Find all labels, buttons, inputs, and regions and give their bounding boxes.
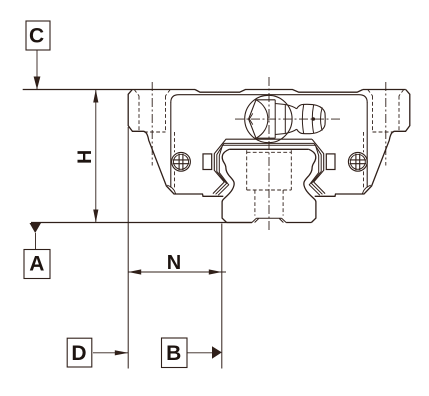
- seal claw right: [362, 185, 370, 194]
- end cap side edge left: [170, 102, 172, 187]
- datum line A (rail bottom reference): [31, 222, 252, 224]
- leader A: [35, 233, 37, 250]
- hidden edge dashed right: [363, 132, 365, 188]
- H arrow up: [93, 90, 98, 103]
- hex vertex chamfer: [249, 113, 252, 124]
- label box A: [24, 250, 50, 279]
- hidden edge dashed left: [174, 132, 176, 188]
- label box C: [26, 21, 50, 50]
- leader D: [93, 352, 128, 354]
- retainer band middle line: [216, 143, 323, 194]
- datum triangle B: [212, 346, 222, 358]
- datum triangle A: [30, 223, 42, 233]
- grease nipple recess circle: [245, 95, 292, 142]
- nipple axis centerline: [235, 118, 341, 120]
- rail counterbore hidden: [247, 150, 292, 215]
- end cap side edge right: [366, 102, 368, 187]
- retainer band outer line: [213, 139, 325, 193]
- head ring arc 1: [302, 104, 303, 133]
- mounting hole right (hidden): [368, 90, 404, 133]
- dimension N line: [128, 271, 226, 273]
- N arrow left: [128, 269, 141, 274]
- rail top surface: [229, 148, 309, 150]
- datum line C (top surface reference line): [23, 89, 195, 91]
- main vertical centerline: [268, 77, 270, 231]
- extension line D (block side face): [127, 127, 129, 369]
- cross screw left: [172, 152, 191, 171]
- head ring arc 2: [312, 105, 313, 133]
- hole centerline right: [385, 82, 387, 166]
- end cap top edge left: [171, 95, 367, 103]
- grease nipple head: [297, 104, 326, 133]
- side seal tab right: [326, 154, 335, 170]
- svg-text:D: D: [71, 342, 86, 365]
- grease nipple waist cone: [285, 105, 296, 134]
- leader C: [36, 50, 38, 89]
- rail head profile left: [222, 149, 234, 222]
- grease nipple neck: [275, 100, 285, 138]
- label box D: [67, 338, 92, 367]
- svg-text:N: N: [167, 252, 181, 274]
- wire body top right segment: [363, 89, 406, 91]
- H arrow down: [93, 210, 98, 223]
- nose face arc: [321, 107, 323, 130]
- cross screw right: [348, 152, 367, 171]
- leader B: [187, 352, 213, 354]
- grease hole dot: [312, 117, 316, 121]
- rail bottom: [227, 222, 312, 224]
- body boss (raised center top of block body): [195, 90, 363, 93]
- side seal tab left: [203, 154, 212, 170]
- grease nipple hex: [249, 100, 276, 138]
- svg-text:A: A: [29, 253, 44, 276]
- rail head profile right: [304, 149, 316, 222]
- dimension H line: [95, 90, 97, 223]
- arrow D: [115, 350, 128, 355]
- extension line B (rail side face): [221, 224, 223, 369]
- label box B: [162, 338, 188, 368]
- retainer band inner line: [218, 145, 320, 195]
- mounting hole left (hidden): [134, 90, 170, 133]
- arrow C: [34, 77, 41, 90]
- block outline right (tab, side, diagonal, bottom): [315, 90, 410, 197]
- hole centerline left: [151, 82, 153, 166]
- svg-text:H: H: [74, 150, 96, 164]
- hex facet arc: [256, 100, 267, 138]
- rail bolt hole exit chamfer: [252, 218, 286, 222]
- svg-text:B: B: [166, 342, 181, 365]
- block outline left (tab, side, diagonal, bottom): [128, 90, 223, 197]
- svg-text:C: C: [29, 25, 44, 48]
- seal claw left: [167, 185, 175, 194]
- N arrow right: [209, 269, 222, 274]
